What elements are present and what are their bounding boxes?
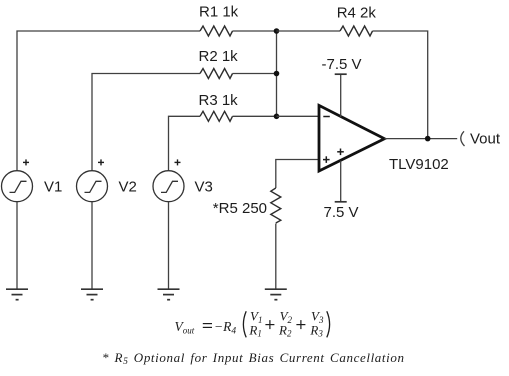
wire summing junction vertical bbox=[276, 31, 278, 116]
wire op-amp output bbox=[384, 138, 457, 140]
ground V3 bbox=[158, 289, 180, 300]
svg-text:R2: R2 bbox=[278, 323, 292, 339]
wire V2 to ground bbox=[91, 202, 93, 290]
ground V1 bbox=[6, 289, 28, 300]
wire V2 rail bbox=[92, 74, 200, 171]
source V3 bbox=[153, 171, 184, 202]
node output junction dot bbox=[425, 136, 431, 142]
wire positive supply pin bbox=[340, 74, 342, 117]
wire node C to inverting input bbox=[277, 115, 320, 117]
V3 plus marker bbox=[175, 159, 181, 165]
node C junction dot bbox=[274, 114, 280, 120]
wire V3 rail bbox=[169, 116, 201, 170]
wire R5 to non-inverting input bbox=[276, 160, 319, 189]
resistor R4 bbox=[340, 26, 372, 36]
wire R4 to output bbox=[373, 31, 428, 139]
node A junction dot bbox=[274, 28, 280, 34]
wire V1 to ground bbox=[16, 202, 18, 290]
wire V1 top rail bbox=[17, 31, 200, 171]
V2 plus marker bbox=[98, 159, 104, 165]
svg-text:−R4: −R4 bbox=[214, 319, 236, 337]
svg-text:-7.5 V: -7.5 V bbox=[322, 56, 362, 73]
svg-text:V3: V3 bbox=[195, 179, 213, 196]
wire R5 to ground bbox=[275, 224, 277, 290]
ground V2 bbox=[81, 289, 103, 300]
op-amp inverting input marker bbox=[323, 116, 330, 118]
wire R1 to node A bbox=[233, 30, 277, 32]
ground R5 bbox=[265, 289, 287, 300]
output port symbol bbox=[461, 131, 465, 146]
svg-text:Vout: Vout bbox=[470, 131, 501, 148]
svg-text:R1: R1 bbox=[248, 323, 261, 339]
svg-text:* R5 Optional for Input Bias C: * R5 Optional for Input Bias Current Can… bbox=[102, 350, 405, 367]
V1 plus marker bbox=[23, 159, 29, 165]
wire R2 to node B bbox=[233, 73, 277, 75]
resistor R5 bbox=[271, 188, 281, 223]
wire node A to R4 bbox=[277, 30, 341, 32]
op-amp non-inverting input marker bbox=[323, 156, 330, 163]
source V2 bbox=[77, 171, 108, 202]
node B junction dot bbox=[274, 71, 280, 77]
resistor R3 bbox=[200, 111, 232, 121]
svg-text:R3: R3 bbox=[309, 323, 323, 339]
terminal -7.5V bar bbox=[335, 73, 347, 75]
source V1 bbox=[2, 171, 33, 202]
svg-text:V1: V1 bbox=[44, 179, 62, 196]
resistor R1 bbox=[200, 26, 232, 36]
svg-text:TLV9102: TLV9102 bbox=[389, 156, 449, 173]
svg-text:R4 2k: R4 2k bbox=[337, 5, 377, 22]
svg-text:R3 1k: R3 1k bbox=[199, 92, 239, 109]
wire R3 to node C bbox=[233, 115, 277, 117]
svg-text:Vout: Vout bbox=[175, 319, 197, 336]
wire V3 to ground bbox=[168, 202, 170, 290]
terminal 7.5V bar bbox=[335, 201, 347, 203]
svg-text:*R5 250: *R5 250 bbox=[213, 200, 267, 217]
op-amp V+ marker bbox=[337, 149, 344, 156]
wire negative supply pin bbox=[340, 161, 342, 202]
svg-text:R1 1k: R1 1k bbox=[199, 4, 239, 21]
svg-text:V2: V2 bbox=[119, 179, 137, 196]
resistor R2 bbox=[200, 69, 232, 79]
op-amp U1 TLV9102 bbox=[319, 105, 384, 171]
svg-text:7.5 V: 7.5 V bbox=[324, 204, 359, 221]
svg-text:R2 1k: R2 1k bbox=[199, 48, 239, 65]
formula Vout = -R4(V1/R1 + V2/R2 + V3/R3) bbox=[175, 309, 330, 339]
